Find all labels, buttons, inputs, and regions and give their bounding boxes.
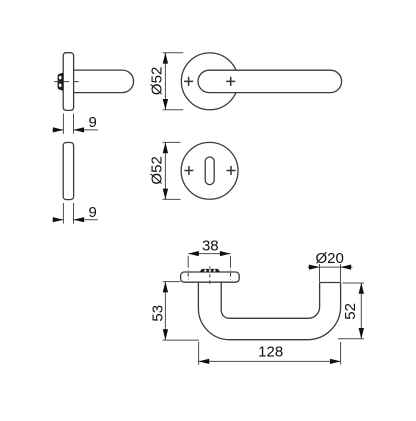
svg-text:53: 53 bbox=[150, 305, 167, 322]
svg-text:9: 9 bbox=[89, 204, 97, 221]
svg-text:Ø52: Ø52 bbox=[149, 67, 166, 95]
svg-text:Ø20: Ø20 bbox=[316, 250, 344, 267]
svg-text:38: 38 bbox=[202, 238, 219, 255]
svg-text:128: 128 bbox=[258, 344, 283, 361]
svg-text:Ø52: Ø52 bbox=[149, 156, 166, 184]
svg-text:9: 9 bbox=[89, 114, 97, 131]
svg-text:52: 52 bbox=[342, 303, 359, 320]
